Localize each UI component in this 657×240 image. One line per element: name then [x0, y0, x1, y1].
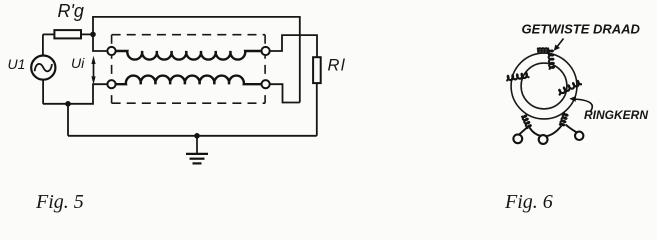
terminal T2: [539, 135, 548, 144]
junction node C: [194, 133, 200, 139]
lead to terminal T2 (left branch): [530, 128, 541, 136]
wire source bottom: [42, 80, 44, 104]
junction node B: [65, 101, 71, 107]
winding L2 (bottom, loops bulge up): [115, 76, 262, 85]
wire R'g left: [43, 33, 55, 35]
terminal T3: [575, 132, 583, 140]
wire Rl bottom: [316, 83, 318, 136]
svg-text:Fig. 6: Fig. 6: [504, 191, 553, 213]
terminal 4 (bottom-right): [262, 80, 270, 88]
lead to terminal T3: [566, 125, 577, 133]
wire input bottom rail: [43, 84, 108, 104]
svg-text:RINGKERN: RINGKERN: [584, 108, 648, 122]
resistor R'g: [54, 30, 81, 38]
svg-text:GETWISTE DRAAD: GETWISTE DRAAD: [522, 22, 641, 37]
resistor Rl: [313, 57, 321, 83]
wire output bottom: [270, 84, 300, 102]
twisted winding bottom-right: [559, 112, 567, 125]
arrow to twisted wire: [554, 39, 564, 51]
ground: [186, 136, 208, 164]
terminal 1 (top-left): [107, 47, 115, 55]
wire ground rail: [68, 135, 317, 137]
lead to terminal T1: [519, 128, 527, 135]
voltage source U1: [31, 56, 55, 80]
wire output top: [270, 35, 317, 57]
junction node A: [90, 32, 96, 38]
lead to terminal T2 (right branch): [546, 126, 561, 137]
wire input top stub: [93, 34, 108, 51]
winding L1 (top, loops bulge down): [116, 51, 262, 60]
wire source top: [42, 34, 44, 55]
twisted winding left: [506, 73, 529, 81]
transformer dashed box: [112, 35, 266, 104]
wire top rail: [93, 17, 300, 103]
arrow to ring core: [569, 96, 592, 112]
ring core inner circle: [521, 63, 567, 109]
svg-text:Ui: Ui: [71, 55, 85, 71]
wire ground drop: [67, 104, 69, 136]
svg-text:U1: U1: [8, 56, 26, 72]
ring core outer circle: [511, 53, 577, 119]
twisted winding top: [537, 48, 554, 69]
svg-text:Rl: Rl: [328, 57, 347, 75]
twisted winding right: [559, 81, 582, 95]
svg-text:R'g: R'g: [58, 1, 84, 21]
svg-text:Fig. 5: Fig. 5: [35, 191, 84, 213]
twisted winding bottom-left: [521, 116, 530, 130]
wire R'g right: [81, 33, 93, 35]
terminal 3 (bottom-left): [107, 80, 115, 88]
terminal T1: [513, 134, 522, 143]
terminal 2 (top-right): [262, 47, 270, 55]
arrow Ui (double-headed): [91, 56, 95, 85]
